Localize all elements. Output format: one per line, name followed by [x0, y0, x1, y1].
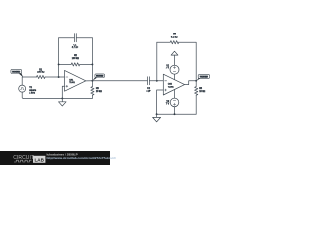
wire R4 right and feedback2 right vertical — [179, 42, 196, 81]
svg-text:100 kΩ: 100 kΩ — [72, 58, 80, 60]
voltage source V1 — [19, 77, 37, 98]
op-amp OA2 — [163, 74, 184, 95]
resistor R1 — [37, 69, 46, 78]
svg-text:NODE1: NODE1 — [13, 71, 21, 73]
capacitor C1 — [72, 34, 79, 50]
node NODE3 flag — [196, 75, 209, 81]
capacitor C2 — [146, 77, 151, 93]
svg-text:NODE3: NODE3 — [200, 76, 208, 78]
wire R4 left — [157, 41, 170, 43]
svg-text:LAB: LAB — [34, 157, 44, 162]
wire R1 to node A — [45, 76, 64, 78]
resistor R4 — [170, 33, 179, 43]
node A junction — [58, 76, 60, 78]
footer credit text — [47, 152, 117, 161]
resistor R3 — [91, 81, 102, 99]
wire ground bus stage1 — [23, 97, 92, 99]
ground symbol stage2 — [153, 114, 161, 122]
svg-text:1 kHz: 1 kHz — [29, 93, 36, 95]
watermark footer bar — [0, 151, 110, 165]
wire op-amp2 output jog — [185, 81, 197, 85]
wire C1 right — [76, 37, 92, 39]
junction R2 right — [91, 63, 93, 65]
wire C2 to node J2 — [149, 80, 163, 82]
wire input node to R1 — [22, 76, 36, 78]
node NODE2 flag — [93, 74, 105, 81]
logo CircuitLab — [13, 155, 45, 163]
svg-text:1 µF: 1 µF — [146, 91, 151, 93]
wire bottom bus stage2 — [157, 113, 197, 115]
svg-text:100 kΩ: 100 kΩ — [37, 72, 45, 74]
svg-text:R4: R4 — [173, 33, 177, 35]
svg-text:10 kΩ: 10 kΩ — [199, 91, 205, 93]
wire feedback left vertical — [58, 38, 60, 77]
op-amp OA1 — [65, 70, 86, 91]
svg-text:7 V: 7 V — [166, 68, 170, 70]
svg-text:TL081: TL081 — [69, 82, 76, 84]
wire feedback right vertical — [91, 38, 93, 81]
wire C1 left — [59, 37, 75, 39]
node B junction — [91, 80, 93, 82]
node C junction — [195, 80, 197, 82]
resistor R2 — [71, 55, 80, 66]
wire node B to C2 — [92, 80, 147, 82]
svg-text:7 V: 7 V — [166, 103, 170, 105]
svg-text:NODE2: NODE2 — [96, 76, 104, 78]
svg-text:9.1 kΩ: 9.1 kΩ — [171, 37, 178, 39]
resistor R5 — [195, 81, 206, 114]
node NODE1 flag — [11, 69, 23, 77]
wire op-amp1 output — [86, 80, 93, 82]
ground symbol stage1 — [59, 98, 67, 106]
junction bottom bus — [174, 113, 176, 115]
svg-text:10 kΩ: 10 kΩ — [96, 91, 102, 93]
node J2 junction — [156, 80, 158, 82]
voltage source V3 — [166, 90, 179, 115]
junction ground stage1 — [61, 97, 63, 99]
svg-text:4.7 nF: 4.7 nF — [72, 47, 79, 49]
supply arrow VCC — [171, 51, 178, 65]
wire op-amp2 plus input — [157, 90, 164, 114]
wire feedback2 left vertical — [156, 42, 158, 81]
svg-text:TL081: TL081 — [168, 86, 175, 88]
junction ground stage2 — [156, 113, 158, 115]
svg-text:C2: C2 — [147, 88, 151, 90]
junction R2 left — [58, 63, 60, 65]
voltage source V2 — [166, 65, 179, 80]
wire R2 right — [80, 63, 93, 65]
wire op-amp plus input — [62, 86, 64, 98]
svg-text:V1: V1 — [29, 87, 33, 89]
wire R2 left — [59, 63, 72, 65]
